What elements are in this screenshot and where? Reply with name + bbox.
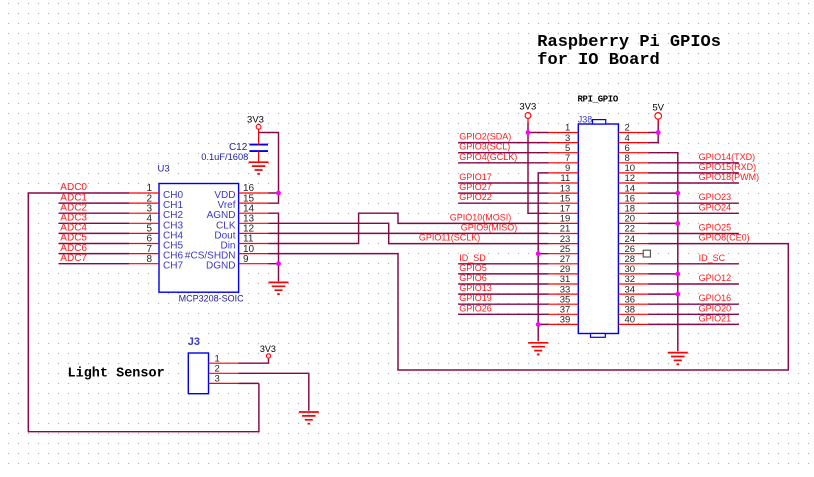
wire net GPIO26 bbox=[458, 313, 548, 315]
capacitor C12 plates bbox=[249, 145, 268, 152]
svg-text:GPIO5: GPIO5 bbox=[459, 263, 487, 273]
J38 pin 1 stub + number bbox=[548, 123, 578, 134]
wire net GPIO19 bbox=[458, 303, 548, 305]
power port 3V3 (at J3) bbox=[260, 344, 276, 358]
svg-text:39: 39 bbox=[560, 315, 571, 326]
junction 5V/pin2 bbox=[656, 130, 661, 135]
U3 pin name #CS/SHDN bbox=[185, 251, 236, 262]
J38 pin 24 stub + number bbox=[618, 234, 648, 245]
svg-text:GPIO21: GPIO21 bbox=[699, 313, 732, 323]
J3 pin 3 stub + number bbox=[209, 374, 239, 385]
ground (J38 right) bbox=[668, 353, 688, 365]
net label GPIO8(CE0) bbox=[699, 233, 750, 243]
net label GPIO5 bbox=[459, 263, 487, 273]
U3 pin name Din bbox=[220, 241, 235, 252]
value label 0.1uF/1608 bbox=[201, 152, 248, 162]
junction GND/pin30 bbox=[675, 272, 680, 277]
J38 pin 13 stub + number bbox=[548, 183, 578, 194]
net label GPIO15(RXD) bbox=[699, 162, 757, 172]
J38 pin 30 stub + number bbox=[618, 264, 648, 275]
J38 pin 33 stub + number bbox=[548, 284, 578, 295]
svg-text:Raspberry Pi GPIOs: Raspberry Pi GPIOs bbox=[537, 33, 721, 52]
svg-text:3V3: 3V3 bbox=[519, 101, 536, 112]
net label GPIO17 bbox=[459, 172, 492, 182]
J38 pin 22 stub + number bbox=[618, 224, 648, 235]
svg-text:GPIO13: GPIO13 bbox=[459, 283, 492, 293]
U3 pin name AGND bbox=[207, 210, 236, 221]
designator C12 bbox=[229, 142, 248, 153]
svg-text:GPIO2(SDA): GPIO2(SDA) bbox=[459, 132, 511, 142]
net label ADC7 bbox=[60, 253, 87, 264]
net label GPIO21 bbox=[699, 313, 732, 323]
J38 pin 25 stub + number bbox=[548, 244, 578, 255]
net label GPIO26 bbox=[459, 303, 492, 313]
wire net GPIO5 bbox=[458, 273, 548, 275]
svg-text:GPIO24: GPIO24 bbox=[699, 202, 732, 212]
J38 pin 23 stub + number bbox=[548, 234, 578, 245]
power port 3V3 (at C12) bbox=[247, 114, 264, 129]
wire net ADC5 bbox=[59, 243, 129, 245]
wire net ID_SC bbox=[648, 263, 739, 265]
wire net GPIO21 bbox=[648, 323, 739, 325]
U3 pin 4 (CH3) stub + number bbox=[129, 214, 159, 225]
J38 pin 40 stub + number bbox=[618, 315, 648, 326]
wire net GND left (J38 pins 9,25,39) bbox=[538, 173, 548, 341]
net label GPIO14(TXD) bbox=[699, 152, 756, 162]
connector J38 bottom tab bbox=[591, 334, 606, 338]
net label GPIO12 bbox=[699, 273, 732, 283]
wire net ADC2 bbox=[59, 212, 129, 214]
connector J38 top tab bbox=[593, 120, 606, 124]
J38 pin 39 stub + number bbox=[548, 315, 578, 326]
net label GPIO4(GCLK) bbox=[459, 152, 517, 162]
net label GPIO18(PWM) bbox=[699, 172, 760, 182]
U3 pin 2 (CH1) stub + number bbox=[129, 193, 159, 204]
junction GND/pin34 bbox=[675, 292, 680, 297]
wire net ADC6 bbox=[59, 253, 129, 255]
wire net GPIO8(CE0) from U3 #CS/SHDN to J38 pin 24 bbox=[269, 244, 789, 370]
J38 pin 28 stub + number bbox=[618, 254, 648, 265]
wire net GPIO24 bbox=[648, 212, 739, 214]
wire net GPIO6 bbox=[458, 283, 548, 285]
wire net ID_SD bbox=[458, 263, 548, 265]
svg-text:GPIO15(RXD): GPIO15(RXD) bbox=[699, 162, 757, 172]
ground (U3 DGND) bbox=[269, 282, 289, 294]
U3 pin name VDD bbox=[214, 190, 235, 201]
svg-text:GPIO12: GPIO12 bbox=[699, 273, 732, 283]
U3 pin 12 (Dout) stub + number bbox=[239, 224, 269, 235]
J38 pin 11 stub + number bbox=[548, 173, 578, 184]
net label ID_SD bbox=[459, 253, 486, 263]
svg-text:Light Sensor: Light Sensor bbox=[68, 367, 165, 382]
svg-text:GPIO22: GPIO22 bbox=[459, 192, 492, 202]
svg-text:GPIO11(SCLK): GPIO11(SCLK) bbox=[419, 233, 480, 243]
wire net GPIO11(SCLK) from U3 CLK to J38 pin 23 bbox=[269, 223, 549, 243]
svg-text:9: 9 bbox=[243, 254, 249, 265]
U3 pin 7 (CH6) stub + number bbox=[129, 244, 159, 255]
IC U3 body MCP3208 bbox=[159, 184, 239, 293]
J38 pin 14 stub + number bbox=[618, 183, 648, 194]
net label GPIO11(SCLK) bbox=[419, 233, 480, 243]
U3 pin name CH6 bbox=[163, 251, 183, 262]
J38 pin 35 stub + number bbox=[548, 294, 578, 305]
designator J38 bbox=[578, 115, 593, 125]
wire net ADC3 bbox=[59, 222, 129, 224]
svg-text:GPIO25: GPIO25 bbox=[699, 223, 732, 233]
svg-text:J3: J3 bbox=[188, 336, 200, 348]
U3 pin name CH1 bbox=[163, 200, 183, 211]
U3 pin 16 (VDD) stub + number bbox=[239, 183, 269, 194]
svg-text:ID_SC: ID_SC bbox=[699, 253, 726, 263]
svg-text:GPIO3(SCL): GPIO3(SCL) bbox=[459, 142, 510, 152]
net label GPIO25 bbox=[699, 223, 732, 233]
U3 pin 1 (CH0) stub + number bbox=[129, 183, 159, 194]
wire net GPIO23 bbox=[648, 202, 739, 204]
U3 pin name CH2 bbox=[163, 210, 183, 221]
svg-text:GPIO16: GPIO16 bbox=[699, 293, 732, 303]
J38 pin 19 stub + number bbox=[548, 214, 578, 225]
U3 pin 13 (CLK) stub + number bbox=[239, 214, 269, 225]
svg-text:GPIO10(MOSI): GPIO10(MOSI) bbox=[450, 212, 512, 222]
ground (J38 left) bbox=[528, 343, 548, 355]
text RPI_GPIO bbox=[578, 94, 619, 104]
U3 pin 8 (CH7) stub + number bbox=[129, 254, 159, 265]
U3 pin 15 (Vref) stub + number bbox=[239, 193, 269, 204]
wire net GPIO18(PWM) bbox=[648, 182, 739, 184]
U3 pin 11 (Din) stub + number bbox=[239, 234, 269, 245]
svg-text:GPIO18(PWM): GPIO18(PWM) bbox=[699, 172, 760, 182]
designator J3 bbox=[188, 336, 200, 348]
wire net 3V3 to J38 pins 1,17 bbox=[528, 118, 548, 213]
wire net GPIO4(GCLK) bbox=[458, 162, 548, 164]
wire net GPIO12 bbox=[648, 283, 739, 285]
svg-text:5V: 5V bbox=[652, 103, 664, 114]
junction GND/pin39 bbox=[536, 322, 541, 327]
net label ADC1 bbox=[60, 192, 87, 203]
J38 pin 9 stub + number bbox=[548, 163, 578, 174]
U3 pin name CH4 bbox=[163, 230, 183, 241]
svg-text:3: 3 bbox=[215, 374, 220, 385]
svg-text:GPIO4(GCLK): GPIO4(GCLK) bbox=[459, 152, 517, 162]
designator U3 bbox=[158, 164, 170, 175]
net label GPIO19 bbox=[459, 293, 492, 303]
junction GND/pin25 bbox=[536, 251, 541, 256]
J38 pin 37 stub + number bbox=[548, 305, 578, 316]
net label GPIO6 bbox=[459, 273, 487, 283]
svg-text:GPIO17: GPIO17 bbox=[459, 172, 492, 182]
J38 pin 21 stub + number bbox=[548, 224, 578, 235]
net label ID_SC bbox=[699, 253, 726, 263]
svg-text:ADC7: ADC7 bbox=[60, 253, 87, 264]
net label ADC4 bbox=[60, 223, 87, 234]
wire net GPIO22 bbox=[458, 202, 548, 204]
wire net GPIO10(MOSI) from U3 Din to J38 pin 19 bbox=[269, 213, 549, 243]
net label ADC0 bbox=[60, 182, 87, 193]
U3 pin name Dout bbox=[214, 230, 235, 241]
wire net GPIO25 bbox=[648, 233, 739, 235]
connector J3 body bbox=[188, 353, 208, 394]
svg-text:GPIO8(CE0): GPIO8(CE0) bbox=[699, 233, 750, 243]
wire net GPIO20 bbox=[648, 313, 739, 315]
net label GPIO16 bbox=[699, 293, 732, 303]
U3 pin 9 (DGND) stub + number bbox=[239, 254, 269, 265]
J38 pin 29 stub + number bbox=[548, 264, 578, 275]
svg-text:GPIO23: GPIO23 bbox=[699, 192, 732, 202]
svg-text:GPIO19: GPIO19 bbox=[459, 293, 492, 303]
wire net ADC4 bbox=[59, 232, 129, 234]
J38 pin 20 stub + number bbox=[618, 214, 648, 225]
J38 pin 31 stub + number bbox=[548, 274, 578, 285]
svg-text:CH7: CH7 bbox=[163, 261, 183, 272]
J38 pin 36 stub + number bbox=[618, 294, 648, 305]
wire net GPIO17 bbox=[458, 182, 548, 184]
U3 pin name Vref bbox=[218, 200, 236, 211]
wire net 3V3 to U3 VDD/Vref bbox=[259, 133, 279, 204]
net label GPIO22 bbox=[459, 192, 492, 202]
svg-text:3V3: 3V3 bbox=[247, 114, 264, 125]
net label GPIO24 bbox=[699, 202, 732, 212]
U3 pin name DGND bbox=[206, 261, 235, 272]
junction AGND/DGND bbox=[276, 261, 281, 266]
wire net 3V3 to J3 pin1 bbox=[239, 359, 269, 364]
junction GND/pin14 bbox=[675, 191, 680, 196]
net label GPIO10(MOSI) bbox=[450, 212, 512, 222]
net label GPIO23 bbox=[699, 192, 732, 202]
connector J38 body bbox=[578, 124, 618, 334]
wire net GPIO14(TXD) bbox=[648, 162, 739, 164]
svg-text:for IO Board: for IO Board bbox=[537, 51, 659, 70]
net label GPIO2(SDA) bbox=[459, 132, 511, 142]
wire net ADC7 bbox=[59, 263, 129, 265]
net label GPIO13 bbox=[459, 283, 492, 293]
wire net GND J3 pin2 bbox=[239, 373, 309, 411]
svg-text:GPIO27: GPIO27 bbox=[459, 182, 492, 192]
wire net GPIO16 bbox=[648, 303, 739, 305]
svg-text:J38: J38 bbox=[578, 115, 593, 125]
svg-text:0.1uF/1608: 0.1uF/1608 bbox=[201, 152, 248, 162]
U3 pin name CH0 bbox=[163, 190, 183, 201]
J38 pin 26 stub + number bbox=[618, 244, 648, 255]
net label GPIO27 bbox=[459, 182, 492, 192]
J38 pin 5 stub + number bbox=[548, 143, 578, 154]
wire net GPIO13 bbox=[458, 293, 548, 295]
wire net ADC1 bbox=[59, 202, 129, 204]
svg-text:DGND: DGND bbox=[206, 261, 235, 272]
U3 pin 10 (#CS/SHDN) stub + number bbox=[239, 244, 269, 255]
text: Light Sensor bbox=[68, 367, 165, 382]
net label GPIO3(SCL) bbox=[459, 142, 510, 152]
net label GPIO20 bbox=[699, 303, 732, 313]
J38 pin 17 stub + number bbox=[548, 204, 578, 215]
J38 pin 16 stub + number bbox=[618, 193, 648, 204]
J38 pin 8 stub + number bbox=[618, 153, 648, 164]
junction 3V3/VDD bbox=[276, 191, 281, 196]
net label ADC2 bbox=[60, 202, 87, 213]
junction GND/pin20 bbox=[675, 221, 680, 226]
power port 3V3 (at J38 pin1/17) bbox=[519, 101, 536, 118]
wire net GPIO9(MISO) from U3 Dout to J38 pin 21 bbox=[269, 232, 549, 234]
svg-text:GPIO14(TXD): GPIO14(TXD) bbox=[699, 152, 756, 162]
svg-text:8: 8 bbox=[146, 254, 152, 265]
svg-text:40: 40 bbox=[625, 315, 636, 326]
svg-text:U3: U3 bbox=[158, 164, 170, 175]
J38 pin 10 stub + number bbox=[618, 163, 648, 174]
wire net GPIO2(SDA) bbox=[458, 142, 548, 144]
capacitor C12 pins bbox=[258, 129, 260, 162]
U3 pin name CH5 bbox=[163, 241, 183, 252]
J3 pin 1 stub + number bbox=[209, 353, 239, 364]
net label ADC6 bbox=[60, 243, 87, 254]
J3 pin 2 stub + number bbox=[209, 364, 239, 375]
wire net GPIO15(RXD) bbox=[648, 172, 739, 174]
J38 pin 27 stub + number bbox=[548, 254, 578, 265]
wire net AGND/DGND to ground bbox=[269, 213, 279, 281]
wire net GPIO27 bbox=[458, 192, 548, 194]
J38 pin 15 stub + number bbox=[548, 193, 578, 204]
U3 pin name CLK bbox=[216, 220, 236, 231]
J38 pin 6 stub + number bbox=[618, 143, 648, 154]
svg-text:GPIO9(MISO): GPIO9(MISO) bbox=[461, 223, 518, 233]
ground (below C12) bbox=[249, 162, 269, 174]
power port 5V bbox=[652, 103, 664, 120]
wire net GPIO3(SCL) bbox=[458, 152, 548, 154]
J38 pin 34 stub + number bbox=[618, 284, 648, 295]
wire net ADC0 J3 pin3 segment bbox=[239, 382, 259, 384]
svg-text:GPIO26: GPIO26 bbox=[459, 303, 492, 313]
J38 pin 3 stub + number bbox=[548, 133, 578, 144]
J38 pin 12 stub + number bbox=[618, 173, 648, 184]
wire net 5V to J38 pins 2,4 bbox=[648, 119, 658, 143]
J38 pin 38 stub + number bbox=[618, 305, 648, 316]
svg-text:MCP3208-SOIC: MCP3208-SOIC bbox=[179, 294, 245, 304]
svg-text:RPI_GPIO: RPI_GPIO bbox=[578, 94, 619, 104]
net label ADC3 bbox=[60, 213, 87, 224]
U3 pin 14 (AGND) stub + number bbox=[239, 203, 269, 214]
J38 pin 4 stub + number bbox=[618, 133, 648, 144]
no-connect marker J38 pin 26 bbox=[643, 250, 650, 257]
wire net GND right (J38 pins 6,14,20,30,34) bbox=[648, 153, 678, 352]
net label ADC5 bbox=[60, 233, 87, 244]
junction 3V3/pin1 bbox=[526, 130, 531, 135]
J38 pin 7 stub + number bbox=[548, 153, 578, 164]
svg-text:ID_SD: ID_SD bbox=[459, 253, 486, 263]
title: Raspberry Pi GPIOs for IO Board bbox=[537, 33, 721, 70]
J38 pin 18 stub + number bbox=[618, 204, 648, 215]
U3 pin 5 (CH4) stub + number bbox=[129, 224, 159, 235]
U3 pin name CH3 bbox=[163, 220, 183, 231]
U3 pin 3 (CH2) stub + number bbox=[129, 203, 159, 214]
ground (J3) bbox=[299, 412, 319, 424]
U3 pin 6 (CH5) stub + number bbox=[129, 234, 159, 245]
svg-text:GPIO20: GPIO20 bbox=[699, 303, 732, 313]
J38 pin 32 stub + number bbox=[618, 274, 648, 285]
value label MCP3208-SOIC bbox=[179, 294, 245, 304]
svg-text:GPIO6: GPIO6 bbox=[459, 273, 487, 283]
J38 pin 2 stub + number bbox=[618, 123, 648, 134]
U3 pin name CH7 bbox=[163, 261, 183, 272]
net label GPIO9(MISO) bbox=[461, 223, 518, 233]
svg-text:3V3: 3V3 bbox=[260, 344, 276, 354]
wire net ADC0 (to J3 pin 3) bbox=[28, 193, 259, 432]
